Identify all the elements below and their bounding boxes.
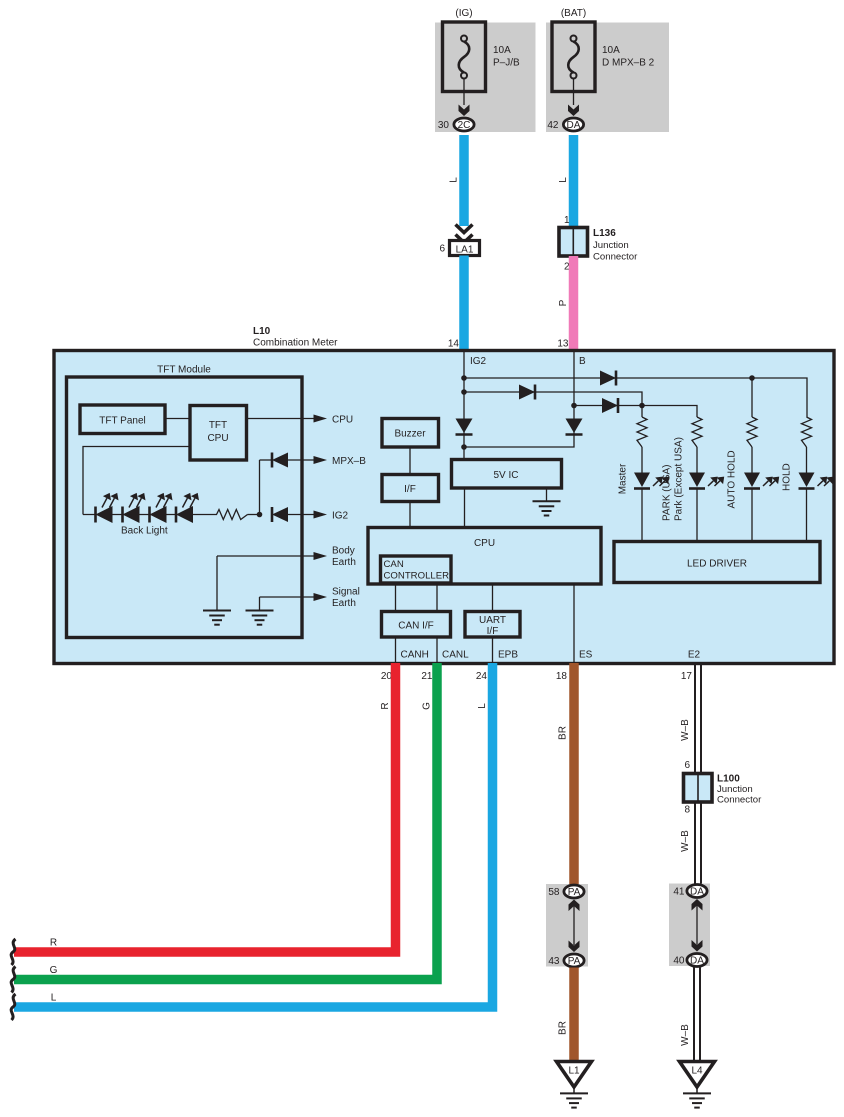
connector PA upper <box>564 885 584 898</box>
junction IG2 branch 1 <box>461 375 467 381</box>
wire ES from CPU to pin 18 <box>573 584 575 663</box>
svg-text:PARK (USA): PARK (USA) <box>662 465 673 522</box>
arrow down PA pair <box>569 941 580 953</box>
wire master column top <box>641 406 643 418</box>
wire CPU to UART I/F <box>492 584 494 612</box>
wire back light LED string <box>83 514 217 516</box>
wire B feed line 3 <box>574 406 697 418</box>
svg-text:DA: DA <box>690 887 704 898</box>
arrow into connector LA1 <box>456 225 473 243</box>
svg-text:6: 6 <box>684 760 690 771</box>
wire P pink from L136 to L10 pin 13 <box>569 256 579 352</box>
5V IC block <box>452 460 562 489</box>
fuse value label 10A D MPX-B 2 <box>602 45 655 69</box>
arrow body earth <box>314 552 328 560</box>
connector block shading PA <box>546 884 588 967</box>
wire signal earth down to ground <box>259 597 261 610</box>
resistor PARK <box>692 417 702 447</box>
wire junction up to MPX-B diode <box>259 460 261 515</box>
fuse 10A D MPX-B 2 <box>552 22 595 92</box>
svg-text:EPB: EPB <box>498 650 518 661</box>
svg-text:G: G <box>422 702 433 710</box>
svg-text:BR: BR <box>558 1021 569 1035</box>
diode on feed line 3 <box>602 398 618 413</box>
svg-text:CONTROLLER: CONTROLLER <box>384 571 450 582</box>
svg-text:HOLD: HOLD <box>782 463 793 491</box>
svg-text:W–B: W–B <box>680 719 691 741</box>
svg-text:Junction: Junction <box>717 784 753 795</box>
back light LED 1 <box>96 493 119 523</box>
wire between DA connectors <box>696 906 698 945</box>
svg-text:10A: 10A <box>493 45 511 56</box>
diode IG2 down <box>456 419 473 435</box>
svg-text:L100: L100 <box>717 774 740 785</box>
junction B branch <box>571 403 577 409</box>
svg-text:R: R <box>380 702 391 709</box>
junction IG2 branch 2 <box>461 389 467 395</box>
wire HOLD LED to LED driver <box>806 489 808 542</box>
wire PARK resistor to LED <box>696 447 698 473</box>
Buzzer block <box>382 419 439 448</box>
wire CANH to pin 20 <box>395 637 397 663</box>
svg-text:40: 40 <box>673 956 685 967</box>
svg-text:Earth: Earth <box>332 557 356 568</box>
svg-text:Master: Master <box>618 463 629 494</box>
connector LA1 <box>450 241 480 256</box>
wire B vertical <box>464 352 574 447</box>
wire CAN controller to CAN I/F right <box>436 583 438 612</box>
svg-text:L1: L1 <box>568 1066 580 1077</box>
fuse 10A P-J/B <box>443 22 486 92</box>
svg-text:41: 41 <box>673 887 685 898</box>
arrow down DA pair <box>692 940 703 952</box>
wire IG2 feed line 2 <box>464 392 642 406</box>
svg-text:R: R <box>50 938 57 949</box>
ground signal earth <box>246 611 274 625</box>
svg-text:21: 21 <box>421 671 433 682</box>
svg-text:W–B: W–B <box>680 830 691 852</box>
ECU L10 combination meter box <box>54 351 834 664</box>
TFT Module box <box>67 377 303 638</box>
wire Buzzer to I/F <box>409 447 411 475</box>
LED Master <box>634 473 669 489</box>
connector DA <box>563 118 583 131</box>
wire W-B E2 upper <box>695 663 701 884</box>
wire W-B E2 lower <box>694 968 700 1062</box>
arrow IG2 output <box>314 511 328 519</box>
I/F block <box>382 475 439 502</box>
svg-text:18: 18 <box>556 671 568 682</box>
junction connector L100 <box>684 774 713 803</box>
svg-text:ES: ES <box>579 650 593 661</box>
svg-text:Connector: Connector <box>717 795 762 806</box>
svg-text:1: 1 <box>564 215 570 226</box>
wire Master LED to LED driver <box>641 489 643 542</box>
svg-text:P: P <box>558 299 569 306</box>
svg-text:17: 17 <box>681 671 693 682</box>
wire diode to IG2 arrow <box>288 514 315 516</box>
wire IG2 vertical <box>463 352 465 460</box>
wire L blue from LA1 to L10 pin 14 <box>459 256 469 353</box>
svg-text:Body: Body <box>332 546 355 557</box>
LED PARK <box>689 473 724 489</box>
svg-text:DA: DA <box>567 120 581 131</box>
wire TFT CPU to CPU output <box>247 418 316 420</box>
wire resistor to junction <box>248 514 261 516</box>
ground L1 <box>560 1093 588 1107</box>
svg-text:LED DRIVER: LED DRIVER <box>687 559 747 570</box>
arrow into connector DA <box>568 105 579 117</box>
back light LED 4 <box>176 493 199 523</box>
ground L4 <box>683 1093 711 1107</box>
wire L blue from DA to L136 <box>569 135 579 229</box>
connector DA upper <box>687 885 707 898</box>
svg-text:8: 8 <box>684 805 690 816</box>
svg-text:CAN I/F: CAN I/F <box>398 621 434 632</box>
junction node back light / IG2 <box>257 512 263 518</box>
svg-text:30: 30 <box>438 120 450 131</box>
svg-text:6: 6 <box>439 244 445 255</box>
connector block shading DA <box>669 884 710 967</box>
CAN CONTROLLER block <box>381 556 452 583</box>
svg-text:MPX–B: MPX–B <box>332 456 366 467</box>
connector DA lower <box>687 954 707 967</box>
svg-text:Back Light: Back Light <box>121 526 168 537</box>
wire I/F to CPU <box>409 502 411 528</box>
UART I/F block <box>465 612 520 638</box>
svg-text:E2: E2 <box>688 650 701 661</box>
arrow up PA pair <box>569 900 580 912</box>
wire fuse to connector 2C <box>463 79 465 106</box>
svg-text:IG2: IG2 <box>470 356 487 367</box>
resistor AUTO HOLD <box>747 417 757 447</box>
svg-text:CANL: CANL <box>442 650 469 661</box>
svg-text:Signal: Signal <box>332 587 360 598</box>
svg-text:10A: 10A <box>602 45 620 56</box>
junction feed line1 / auto hold <box>749 375 755 381</box>
wire L blue from 2C to arrow LA1 <box>459 135 469 226</box>
wire TFT Panel to TFT CPU <box>165 418 190 420</box>
svg-text:CPU: CPU <box>207 433 228 444</box>
svg-text:DA: DA <box>690 956 704 967</box>
svg-text:24: 24 <box>476 671 488 682</box>
wire signal earth <box>260 596 316 598</box>
wire to MPX-B diode <box>260 459 273 461</box>
svg-text:B: B <box>579 356 586 367</box>
TFT CPU block <box>190 406 247 461</box>
diode to IG2 output <box>272 507 288 522</box>
svg-text:Combination Meter: Combination Meter <box>253 338 338 349</box>
break symbol G wire <box>11 967 15 993</box>
junction IG2/B merge <box>461 444 467 450</box>
break symbol R wire <box>11 939 15 965</box>
fuse block shading (BAT) <box>546 23 669 133</box>
wire AUTO HOLD LED to LED driver <box>751 489 753 542</box>
CPU block <box>368 528 601 585</box>
wire diode to MPX-B arrow <box>288 459 315 461</box>
ground body earth <box>203 611 231 625</box>
svg-text:5V IC: 5V IC <box>493 470 518 481</box>
svg-text:IG2: IG2 <box>332 511 349 522</box>
svg-text:W–B: W–B <box>680 1024 691 1046</box>
svg-text:Earth: Earth <box>332 598 356 609</box>
Body Earth label <box>332 546 356 569</box>
svg-text:CAN: CAN <box>384 559 404 570</box>
back light LED 3 <box>150 493 173 523</box>
diode B down <box>566 419 583 435</box>
L136 name label <box>593 228 638 263</box>
svg-text:TFT: TFT <box>209 420 227 431</box>
fuse value label 10A P-J/B <box>493 45 520 69</box>
arrow signal earth <box>314 593 328 601</box>
back light LED 2 <box>123 493 146 523</box>
resistor HOLD <box>802 417 812 447</box>
L10 name label <box>253 326 338 349</box>
svg-text:TFT Panel: TFT Panel <box>99 416 146 427</box>
svg-text:L: L <box>558 177 569 183</box>
svg-text:42: 42 <box>547 120 559 131</box>
svg-text:BR: BR <box>558 726 569 740</box>
diode to MPX-B output <box>272 453 288 468</box>
connector PA lower <box>564 954 584 967</box>
wire BR brown ES lower <box>569 968 579 1063</box>
svg-text:20: 20 <box>381 671 393 682</box>
L100 name label <box>717 774 762 806</box>
svg-text:13: 13 <box>557 339 569 350</box>
svg-text:43: 43 <box>548 956 560 967</box>
wire CAN controller to CAN I/F left <box>395 583 397 612</box>
CAN I/F block <box>382 612 451 638</box>
LED HOLD <box>799 473 834 489</box>
TFT Panel block <box>80 405 165 434</box>
connector 2C <box>454 118 474 131</box>
svg-text:Park (Except USA): Park (Except USA) <box>674 437 685 521</box>
svg-text:G: G <box>50 965 58 976</box>
svg-text:14: 14 <box>448 339 460 350</box>
wire HOLD resistor to LED <box>806 447 808 473</box>
svg-text:L: L <box>51 993 57 1004</box>
junction connector L136 <box>559 228 588 257</box>
svg-text:L: L <box>449 177 460 183</box>
wire EPB to pin 24 <box>492 637 494 663</box>
svg-text:D MPX–B 2: D MPX–B 2 <box>602 58 655 69</box>
LED AUTO HOLD <box>744 473 779 489</box>
svg-text:P–J/B: P–J/B <box>493 58 520 69</box>
svg-text:Buzzer: Buzzer <box>394 429 426 440</box>
resistor Master <box>637 417 647 447</box>
diode on feed line 1 <box>600 371 616 386</box>
wire body earth down to ground <box>216 556 218 610</box>
wire auto hold column top <box>751 378 753 417</box>
arrow MPX-B output <box>314 456 328 464</box>
ground 5V IC <box>533 501 561 515</box>
LED DRIVER block <box>614 542 820 583</box>
wire IG2 feed line 1 <box>464 378 807 417</box>
wire between PA connectors <box>573 906 575 945</box>
junction master column <box>639 403 645 409</box>
diode on feed line 2 <box>519 385 535 400</box>
wire L blue EPB <box>14 663 493 1007</box>
wire AUTO HOLD resistor to LED <box>751 447 753 473</box>
svg-text:Junction: Junction <box>593 240 629 251</box>
svg-text:L: L <box>477 703 488 709</box>
svg-text:UART: UART <box>479 615 506 626</box>
ground plate L4 <box>680 1062 715 1094</box>
svg-text:CPU: CPU <box>332 415 353 426</box>
arrow into connector 2C <box>459 105 470 117</box>
ground plate L1 <box>557 1062 592 1094</box>
svg-text:L10: L10 <box>253 326 271 337</box>
svg-text:AUTO HOLD: AUTO HOLD <box>727 450 738 508</box>
svg-text:I/F: I/F <box>404 484 416 495</box>
wire CANL to pin 21 <box>436 637 438 663</box>
wire G green CANL <box>14 663 437 980</box>
svg-text:2C: 2C <box>458 120 471 131</box>
svg-text:CANH: CANH <box>401 650 429 661</box>
wire BR brown ES upper <box>569 663 579 885</box>
fuse block shading (IG) <box>435 23 536 133</box>
wire TFT CPU to back light string <box>83 447 190 515</box>
wire body earth <box>217 555 315 557</box>
wire fuse to connector DA <box>573 79 575 106</box>
svg-text:(BAT): (BAT) <box>561 8 586 19</box>
svg-text:L136: L136 <box>593 228 616 239</box>
svg-text:L4: L4 <box>691 1066 703 1077</box>
wire Master resistor to LED <box>641 447 643 473</box>
wire PARK LED to LED driver <box>696 489 698 542</box>
svg-text:Connector: Connector <box>593 252 638 263</box>
svg-text:CPU: CPU <box>474 538 495 549</box>
break symbol L wire <box>11 994 15 1020</box>
svg-text:58: 58 <box>548 887 560 898</box>
arrow up DA pair <box>692 899 703 911</box>
svg-text:PA: PA <box>568 956 581 967</box>
wire 5V IC to ground <box>546 488 548 501</box>
arrow CPU output <box>314 415 328 423</box>
svg-text:LA1: LA1 <box>456 245 474 256</box>
wire 5V IC to CPU <box>464 488 466 528</box>
svg-text:(IG): (IG) <box>455 8 472 19</box>
Signal Earth label <box>332 587 360 610</box>
wire R red CANH <box>14 663 396 952</box>
svg-text:I/F: I/F <box>487 626 499 637</box>
svg-text:PA: PA <box>568 887 581 898</box>
resistor in back light string <box>217 510 248 520</box>
svg-text:TFT Module: TFT Module <box>157 365 211 376</box>
